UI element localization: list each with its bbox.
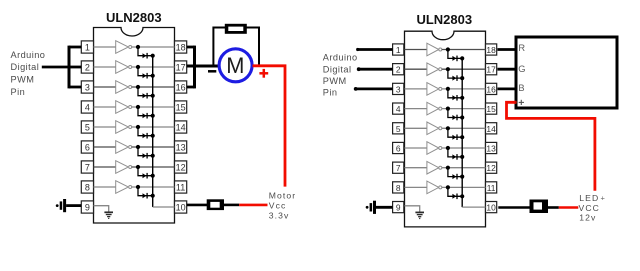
- U2 inverter A8: [427, 181, 442, 194]
- U2 channel 2 output junction: [446, 67, 450, 71]
- wire pin10 to resistor R3: [498, 206, 531, 209]
- wire resistor R2 to Vcc (red): [239, 204, 267, 207]
- U2 channel 2 input wire: [405, 68, 427, 70]
- U2 diode D2 rail junction: [460, 76, 464, 80]
- left ground wire to pin 9: [66, 204, 81, 207]
- U2 flyback diode D6 wire: [448, 148, 462, 157]
- U1 inverter A7: [116, 161, 132, 174]
- U1 channel 7 output junction: [136, 165, 140, 169]
- svg-text:2: 2: [396, 65, 401, 75]
- U1 COM rail wire: [152, 56, 154, 207]
- U2 flyback diode D7 wire: [448, 168, 462, 177]
- U2 pin 13: [486, 142, 497, 153]
- U2 channel 4 output junction: [446, 107, 450, 111]
- U1 channel 3 output wire: [132, 86, 175, 88]
- U2 diode D8 rail junction: [460, 194, 464, 198]
- U2 channel 8 output wire: [442, 186, 486, 188]
- U1 channel 4 output wire: [132, 106, 175, 108]
- U1 flyback diode D4 wire: [138, 107, 153, 116]
- U2 flyback diode D5: [452, 134, 457, 140]
- wire pin16 to LED B: [498, 88, 517, 91]
- U1 pin 15: [175, 101, 187, 113]
- U1 pin 7: [81, 161, 93, 173]
- svg-text:+: +: [601, 193, 606, 202]
- U1 pin 14: [175, 121, 187, 133]
- svg-text:1: 1: [396, 45, 401, 55]
- U2 flyback diode D4: [452, 115, 457, 121]
- svg-text:18: 18: [486, 45, 496, 55]
- svg-text:13: 13: [486, 144, 496, 154]
- right ground symbol: [366, 201, 376, 214]
- U1 flyback diode D7: [143, 173, 148, 179]
- U1 pin9 internal ground wire: [94, 206, 109, 212]
- svg-text:3.3v: 3.3v: [269, 210, 290, 220]
- wire snubber loop: [213, 28, 259, 65]
- resistor R2: [207, 199, 224, 210]
- wire resistor R2 to Vcc (black): [224, 204, 239, 207]
- right ground wire to pin 9: [376, 206, 393, 209]
- U2 pin 10: [486, 202, 497, 213]
- svg-text:9: 9: [396, 203, 401, 213]
- svg-text:2: 2: [85, 63, 90, 73]
- svg-text:B: B: [518, 83, 524, 93]
- U1 inverter A3: [116, 81, 132, 94]
- U1 pin 3: [81, 81, 93, 93]
- U1 diode D2 rail junction: [151, 74, 155, 78]
- svg-text:10: 10: [176, 203, 186, 213]
- svg-text:15: 15: [176, 103, 186, 113]
- U2 channel 6 output wire: [442, 147, 486, 149]
- svg-text:Digital: Digital: [11, 62, 40, 72]
- U1 channel 5 input wire: [94, 126, 116, 128]
- U2 pin 18: [486, 44, 497, 55]
- svg-text:8: 8: [396, 183, 401, 193]
- U2 internal ground symbol: [415, 212, 424, 218]
- label Motor Vcc 3.3v: [269, 191, 296, 221]
- motor + polarity mark: [259, 69, 268, 78]
- U1 inverter A2: [116, 61, 132, 74]
- svg-text:M: M: [226, 53, 244, 78]
- U2 flyback diode D8: [452, 194, 457, 200]
- svg-text:5: 5: [396, 124, 401, 134]
- U1 diode D6 rail junction: [151, 154, 155, 158]
- U1 internal ground symbol: [104, 212, 113, 218]
- svg-text:14: 14: [176, 123, 186, 133]
- svg-text:Arduino: Arduino: [11, 50, 46, 60]
- U2 COM to pin10 wire: [462, 206, 485, 208]
- wire input 2 (right): [357, 67, 393, 71]
- svg-text:ULN2803: ULN2803: [106, 10, 162, 25]
- U2 diode D6 rail junction: [460, 155, 464, 159]
- IC U2 ULN2803 body: [405, 31, 486, 227]
- U1 flyback diode D5: [143, 133, 148, 139]
- U1 flyback diode D6: [143, 153, 148, 159]
- U2 pin 7: [393, 162, 404, 173]
- U1 pin 11: [175, 181, 187, 193]
- U1 channel 4 input wire: [94, 106, 116, 108]
- svg-text:7: 7: [396, 163, 401, 173]
- U1 pin 2: [81, 61, 93, 73]
- wire pin10 to resistor R2: [187, 204, 208, 207]
- svg-text:4: 4: [396, 104, 401, 114]
- U1 pin 9: [81, 201, 93, 213]
- U1 pin 18: [175, 41, 187, 53]
- U2 inverter A1: [427, 43, 442, 56]
- svg-text:17: 17: [176, 63, 186, 73]
- U2 channel 5 output junction: [446, 126, 450, 130]
- label Arduino Digital PWM Pin (left): [11, 50, 46, 97]
- U1 pin 17: [175, 61, 187, 73]
- U2 channel 4 output wire: [442, 108, 486, 110]
- U2 pin 17: [486, 64, 497, 75]
- svg-text:Vcc: Vcc: [269, 201, 287, 211]
- U1 channel 8 input wire: [94, 186, 116, 188]
- svg-text:ULN2803: ULN2803: [416, 12, 472, 27]
- U2 channel 6 input wire: [405, 147, 427, 149]
- U1 flyback diode D4: [143, 113, 148, 119]
- svg-text:Pin: Pin: [11, 87, 26, 97]
- wire LED + to VCC (red): [507, 101, 595, 191]
- U1 channel 6 output junction: [136, 145, 140, 149]
- RGB LED module box: [516, 37, 617, 108]
- U1 channel 1 input wire: [94, 46, 116, 48]
- U2 pin 12: [486, 162, 497, 173]
- U2 diode D4 rail junction: [460, 115, 464, 119]
- U2 channel 3 input wire: [405, 88, 427, 90]
- svg-text:10: 10: [486, 203, 496, 213]
- U2 pin 6: [393, 142, 404, 153]
- U1 channel 5 output junction: [136, 125, 140, 129]
- U2 flyback diode D6: [452, 154, 457, 160]
- wire resistor R3 to VCC (black): [548, 206, 559, 209]
- svg-text:11: 11: [487, 183, 496, 193]
- svg-text:3: 3: [85, 83, 90, 93]
- U1 inverter A4: [116, 101, 132, 114]
- svg-text:PWM: PWM: [11, 75, 35, 85]
- U2 flyback diode D7: [452, 174, 457, 180]
- U2 channel 5 output wire: [442, 127, 486, 129]
- U1 pin 13: [175, 141, 187, 153]
- U1 channel 7 input wire: [94, 166, 116, 168]
- wire pin17 to motor - terminal: [187, 65, 220, 68]
- U1 inverter A8: [116, 181, 132, 194]
- U2 flyback diode D2 wire: [448, 69, 462, 78]
- U1 channel 2 output wire: [132, 66, 175, 68]
- U1 channel 1 output wire: [132, 46, 175, 48]
- U1 inverter A5: [116, 121, 132, 134]
- left ground symbol: [56, 199, 66, 212]
- U2 inverter A2: [427, 63, 442, 76]
- U1 flyback diode D8 wire: [138, 187, 153, 196]
- U1 channel 8 output wire: [132, 186, 175, 188]
- svg-text:3: 3: [396, 84, 401, 94]
- U2 diode D1 rail junction: [460, 56, 464, 60]
- U1 diode D3 rail junction: [151, 94, 155, 98]
- U2 channel 7 input wire: [405, 167, 427, 169]
- U1 flyback diode D2: [143, 73, 148, 79]
- svg-text:R: R: [518, 43, 525, 53]
- U2 channel 5 input wire: [405, 127, 427, 129]
- label + (LED anode): [519, 100, 524, 105]
- U1 flyback diode D1 wire: [138, 47, 153, 56]
- U1 COM to pin10 wire: [153, 206, 175, 208]
- U2 pin 4: [393, 103, 404, 114]
- svg-text:Digital: Digital: [323, 64, 352, 74]
- U2 diode D7 rail junction: [460, 175, 464, 179]
- U1 diode D5 rail junction: [151, 134, 155, 138]
- U2 channel 7 output junction: [446, 166, 450, 170]
- svg-text:8: 8: [85, 183, 90, 193]
- U1 channel 2 output junction: [136, 65, 140, 69]
- wire motor + to Vcc (red): [253, 66, 286, 187]
- label LED + VCC 12v: [579, 193, 606, 223]
- U1 flyback diode D5 wire: [138, 127, 153, 136]
- U1 channel 4 output junction: [136, 105, 140, 109]
- U2 channel 8 input wire: [405, 186, 427, 188]
- svg-text:11: 11: [176, 183, 185, 193]
- IC U1 ULN2803 body: [94, 28, 175, 224]
- U2 pin 14: [486, 123, 497, 134]
- U1 flyback diode D6 wire: [138, 147, 153, 156]
- svg-text:PWM: PWM: [323, 76, 347, 86]
- U2 channel 3 output junction: [446, 87, 450, 91]
- U2 channel 4 input wire: [405, 108, 427, 110]
- U1 flyback diode D8: [143, 193, 148, 199]
- U1 channel 3 output junction: [136, 85, 140, 89]
- motor - polarity mark: [208, 70, 216, 73]
- svg-text:14: 14: [486, 124, 496, 134]
- svg-text:LED: LED: [579, 193, 599, 203]
- U1 pin 5: [81, 121, 93, 133]
- U2 inverter A7: [427, 161, 442, 174]
- U2 inverter A3: [427, 83, 442, 96]
- U2 pin 8: [393, 182, 404, 193]
- U2 flyback diode D8 wire: [448, 187, 462, 196]
- U2 flyback diode D1: [452, 56, 457, 62]
- U2 pin 11: [486, 182, 497, 193]
- wire input 3 (right): [354, 87, 393, 91]
- U1 channel 7 output wire: [132, 166, 175, 168]
- U2 pin 2: [393, 64, 404, 75]
- motor M1: [219, 49, 252, 82]
- U1 diode D4 rail junction: [151, 114, 155, 118]
- U1 pin 16: [175, 81, 187, 93]
- U2 diode D3 rail junction: [460, 96, 464, 100]
- svg-text:6: 6: [85, 143, 90, 153]
- svg-text:12: 12: [176, 163, 186, 173]
- U1 diode D7 rail junction: [151, 174, 155, 178]
- svg-text:17: 17: [486, 65, 496, 75]
- svg-text:9: 9: [85, 203, 90, 213]
- svg-text:Pin: Pin: [323, 88, 338, 98]
- U2 channel 1 output wire: [442, 49, 486, 51]
- wire pin18 to LED R: [498, 48, 517, 51]
- svg-text:12: 12: [486, 163, 496, 173]
- label Arduino Digital PWM Pin (right): [323, 53, 358, 98]
- svg-text:12v: 12v: [579, 213, 596, 223]
- U2 channel 1 input wire: [405, 49, 427, 51]
- svg-text:1: 1: [85, 43, 90, 53]
- svg-text:Arduino: Arduino: [323, 53, 358, 63]
- U1 pin 6: [81, 141, 93, 153]
- U1 inverter A6: [116, 141, 132, 154]
- svg-text:18: 18: [176, 43, 186, 53]
- U1 flyback diode D3 wire: [138, 87, 153, 96]
- U1 channel 6 output wire: [132, 146, 175, 148]
- U2 pin 15: [486, 103, 497, 114]
- U2 flyback diode D2: [452, 75, 457, 81]
- U2 channel 6 output junction: [446, 146, 450, 150]
- wire input net to pins 1-3 (left): [42, 46, 82, 89]
- U1 flyback diode D2 wire: [138, 67, 153, 76]
- wire output net pins 18,17,16 (left): [187, 46, 195, 89]
- U1 pin 8: [81, 181, 93, 193]
- wire resistor R3 to VCC (red): [559, 206, 579, 209]
- svg-text:6: 6: [396, 144, 401, 154]
- U1 diode D1 rail junction: [151, 54, 155, 58]
- svg-text:Motor: Motor: [269, 191, 296, 201]
- U2 pin 1: [393, 44, 404, 55]
- wire pin17 to LED G: [498, 68, 517, 71]
- U1 pin 4: [81, 101, 93, 113]
- U2 flyback diode D1 wire: [448, 50, 462, 59]
- U2 flyback diode D3 wire: [448, 89, 462, 98]
- U1 channel 1 output junction: [136, 45, 140, 49]
- U2 COM rail wire: [461, 58, 463, 207]
- svg-text:4: 4: [85, 103, 90, 113]
- U1 pin 10: [175, 201, 187, 213]
- U2 inverter A5: [427, 122, 442, 135]
- U2 pin9 internal ground wire: [405, 206, 420, 212]
- U2 pin 3: [393, 83, 404, 94]
- svg-text:15: 15: [486, 104, 496, 114]
- resistor R3: [530, 200, 549, 214]
- U2 flyback diode D4 wire: [448, 109, 462, 118]
- U1 channel 6 input wire: [94, 146, 116, 148]
- U2 pin 16: [486, 83, 497, 94]
- U2 channel 7 output wire: [442, 167, 486, 169]
- U1 inverter A1: [116, 41, 132, 54]
- svg-text:16: 16: [486, 84, 496, 94]
- U2 channel 1 output junction: [446, 47, 450, 51]
- U2 pin 5: [393, 123, 404, 134]
- U1 channel 2 input wire: [94, 66, 116, 68]
- U1 pin 1: [81, 41, 93, 53]
- U1 channel 8 output junction: [136, 185, 140, 189]
- U2 flyback diode D3: [452, 95, 457, 101]
- svg-text:VCC: VCC: [579, 203, 600, 213]
- svg-text:5: 5: [85, 123, 90, 133]
- svg-text:16: 16: [176, 83, 186, 93]
- U2 inverter A4: [427, 102, 442, 115]
- U2 flyback diode D5 wire: [448, 128, 462, 137]
- svg-text:13: 13: [176, 143, 186, 153]
- U1 diode D8 rail junction: [151, 194, 155, 198]
- U1 flyback diode D3: [143, 93, 148, 99]
- U2 channel 3 output wire: [442, 88, 486, 90]
- resistor R1 (across motor): [225, 24, 247, 34]
- U1 channel 3 input wire: [94, 86, 116, 88]
- U2 pin 9: [393, 202, 404, 213]
- svg-text:G: G: [518, 64, 525, 74]
- U2 diode D5 rail junction: [460, 135, 464, 139]
- U2 channel 2 output wire: [442, 68, 486, 70]
- U2 inverter A6: [427, 142, 442, 155]
- svg-text:7: 7: [85, 163, 90, 173]
- U1 flyback diode D7 wire: [138, 167, 153, 176]
- U2 channel 8 output junction: [446, 185, 450, 189]
- U1 flyback diode D1: [143, 53, 148, 59]
- wire input 1 (right): [356, 48, 393, 51]
- U1 pin 12: [175, 161, 187, 173]
- U1 channel 5 output wire: [132, 126, 175, 128]
